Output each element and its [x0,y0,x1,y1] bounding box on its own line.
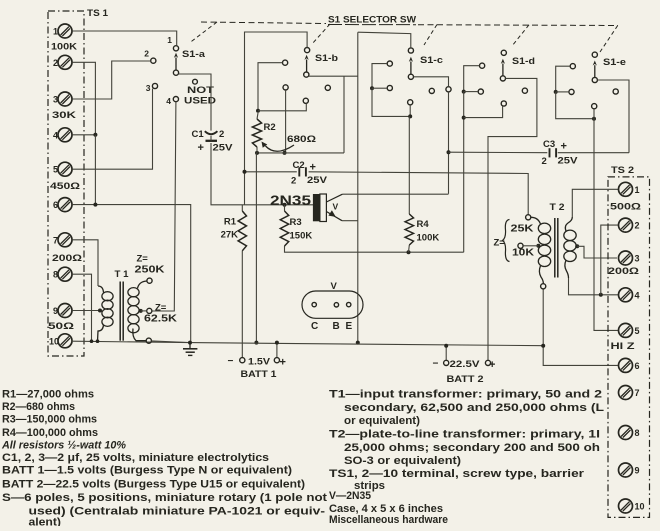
junction dot R2 bottom [255,151,259,155]
TS1 screw terminal 6 [58,198,72,212]
resistor R1 27K [238,205,246,251]
wire TS1-3 to S1-a contact 2 [72,61,150,99]
wire R4 bottom lead [408,245,411,252]
wire S1-b rotor to emitter vertical [309,75,358,77]
TS1 screw terminal 1 [58,24,72,38]
T2 10K tap terminal [518,243,523,248]
svg-text:500Ω: 500Ω [610,202,642,213]
svg-text:100K: 100K [51,42,77,53]
T2 25K tap terminal [526,215,531,220]
svg-text:250K: 250K [135,265,165,276]
wire R4 top lead [408,116,410,214]
T1 secondary winding [128,281,147,341]
svg-text:TS 1: TS 1 [87,8,109,19]
svg-text:22.5V: 22.5V [450,359,481,370]
switch S1-c contact 5 [429,88,434,93]
svg-text:C3: C3 [543,139,555,150]
wire C3 left from collector node [449,151,548,154]
switch S1-b contact 2 [283,60,288,65]
junction dot S1-d contacts a [462,90,466,94]
battery BATT2 plus terminal [487,174,489,360]
svg-text:+: + [198,142,204,154]
junction dot BATT2 minus [444,344,448,348]
transformer T1 core [119,282,121,341]
svg-text:TS1, 2—10 terminal, screw type: TS1, 2—10 terminal, screw type, barrier [329,468,585,480]
svg-text:450Ω: 450Ω [50,181,80,192]
wire TS1-6 bus to ground drop [72,205,190,342]
battery BATT1 plus terminal [276,343,278,358]
TS1 screw terminal 2 [58,55,72,69]
svg-text:100K: 100K [417,233,440,244]
wire S1-d contact 4 drop [464,106,503,118]
TS1 screw terminal 9 [58,304,72,318]
wire TS1-5 to S1-a contact 3 [72,89,152,170]
transistor socket outline [302,291,363,318]
junction dot S1-d contacts b [462,116,466,120]
svg-text:S1 SELECTOR SW: S1 SELECTOR SW [328,15,416,26]
switch S1-c contact 4 [408,100,413,105]
svg-text:V—2N35: V—2N35 [329,490,371,502]
svg-text:200Ω: 200Ω [52,253,82,264]
switch S1-d contact 4 [501,101,506,106]
svg-text:9: 9 [635,466,640,476]
svg-text:SO-3 or equivalent): SO-3 or equivalent) [344,455,461,467]
svg-text:S1-c: S1-c [420,55,443,66]
junction dot S1-b contact3 / R3 line [283,151,287,155]
svg-text:4: 4 [166,96,171,106]
T1 primary winding [98,286,114,341]
wire T2 secondary tap to TS2-3 [577,246,617,258]
wire S1-e rotor to C3 right [597,80,629,153]
resistor R4 100K [405,214,413,245]
switch S1-b contact 5 [325,85,330,90]
wire R2 bottom horizontal [257,152,344,154]
svg-text:1: 1 [167,35,172,45]
svg-text:R1—27,000 ohms: R1—27,000 ohms [2,389,94,401]
wire junction down to TS1-6 node [94,135,96,205]
T1 62.5K tap terminal [147,308,152,313]
TS2 screw terminal 10 [619,499,633,513]
svg-text:S1-d: S1-d [512,56,535,67]
svg-text:1.5V: 1.5V [248,357,271,368]
wire S1-d contacts 2-3 tie [464,66,480,92]
svg-text:C2: C2 [293,160,305,171]
wire R2 bottom junction up to S1-b rotor wire [343,76,345,153]
capacitor C1 [205,131,218,134]
wire S1-b contact1 rectangle to base node vertical [245,32,308,205]
TS1 screw terminal 7 [58,233,72,247]
switch S1-e contact 2 [570,64,575,69]
svg-text:+: + [310,162,316,174]
resistor R2 680 ohm [252,119,261,147]
svg-text:10: 10 [49,336,59,346]
junction dot R2 ground at bus [254,341,258,345]
svg-text:+: + [489,359,495,371]
svg-text:Z=: Z= [494,238,506,249]
svg-text:6: 6 [635,361,640,371]
socket pin B [334,303,338,307]
svg-text:BATT 1—1.5 volts (Burgess Type: BATT 1—1.5 volts (Burgess Type N or equi… [2,465,292,477]
junction dot TS1-8 at common [90,339,94,343]
impedance bracket Z= [503,220,510,262]
junction dot TS1-2/4 [93,133,97,137]
junction dot BATT1 plus [275,341,279,345]
switch S1-c wiper arrow [410,62,412,75]
svg-text:E: E [346,321,353,332]
TS2 screw terminal 9 [619,463,633,477]
svg-text:B: B [333,321,340,332]
TS2 screw terminal 2 [619,218,633,232]
svg-text:62.5K: 62.5K [144,314,177,325]
wire S1-c rotor to output circle [414,77,449,87]
junction dot R2 top [256,109,260,113]
svg-text:C1: C1 [192,129,205,140]
wire TS1-7 to T1 primary top [72,240,98,286]
wire C3 right [558,152,629,154]
wire S1-b contact 3 down to R2 bottom wire [285,90,287,153]
svg-text:BATT 1: BATT 1 [241,369,278,380]
junction dot S1-c contacts [370,86,374,90]
switch S1-c contact 2 [387,61,392,66]
svg-text:V: V [331,281,338,292]
svg-text:25V: 25V [307,175,328,186]
svg-text:R4—100,000 ohms: R4—100,000 ohms [2,427,98,439]
svg-text:R2: R2 [264,122,276,133]
wire T1 common to ground to battery bus [72,341,545,346]
svg-text:R3—150,000 ohms: R3—150,000 ohms [2,413,97,425]
battery BATT2 minus terminal [445,346,447,360]
svg-text:30K: 30K [52,110,76,121]
svg-text:25V: 25V [213,143,234,154]
svg-text:C: C [311,321,318,332]
svg-text:10: 10 [635,502,645,512]
switch S1-d contact 2 [480,63,485,68]
underline below selector label [328,24,416,26]
transistor collector lead [326,194,342,202]
switch S1-d contact 1 [501,50,506,55]
svg-text:R1: R1 [224,217,237,228]
wire TS1-9 to T1 primary tap [72,310,100,312]
svg-text:10K: 10K [512,248,534,259]
junction dot T1 primary tap [98,309,102,313]
svg-text:2: 2 [291,176,296,187]
svg-text:NOT: NOT [187,85,214,96]
TS1 screw terminal 10 [58,334,72,348]
battery BATT1 minus terminal [241,251,243,357]
junction dot C3 tap [447,150,451,154]
svg-text:2: 2 [635,221,640,231]
svg-text:TS 2: TS 2 [611,165,634,176]
switch S1-c rotor contact [408,74,413,79]
T1 250K tap terminal [147,278,152,283]
svg-text:150K: 150K [290,231,313,242]
svg-text:25,000 ohms; secondary 200 and: 25,000 ohms; secondary 200 and 500 oh [344,442,600,454]
junction dot TS1-6 [93,203,97,207]
wire S1-d contacts down [463,92,465,253]
wire C2 left from base-node vertical [245,171,297,173]
svg-text:+: + [280,357,286,369]
junction dot S1-e contacts a [554,90,558,94]
wire S1-c contacts down to R4 node [372,88,410,116]
wire collector to transistor [342,193,448,195]
junction dot T2 secondary tap [575,244,579,248]
wire C2 right to T2 25K tap and S1-d rotor [309,172,529,215]
switch S1-e contact 4 [592,104,597,109]
svg-text:Miscellaneous hardware: Miscellaneous hardware [329,514,448,526]
wire TS1-1 to S1-a contact 1 [72,31,176,46]
terminal strip TS2 dashed outline [608,177,650,518]
switch S1-d rotor contact [500,76,505,81]
switch S1-a contact 1 [173,46,178,51]
TS2 screw terminal 7 [619,386,633,400]
dashed diagonal to S1-d [512,25,529,46]
switch S1-c contact 1 [408,48,413,53]
svg-text:S1-a: S1-a [182,49,206,60]
svg-text:−: − [433,359,439,370]
wire S1-d rotor to plate feed [488,78,537,173]
svg-text:680Ω: 680Ω [287,134,316,145]
wire S1-a contact 4 down to T1 62.5K tap [152,102,176,311]
svg-text:V: V [333,202,339,212]
svg-text:50Ω: 50Ω [48,321,75,332]
svg-text:3: 3 [53,95,58,105]
svg-text:R3: R3 [290,217,302,228]
svg-text:27K: 27K [221,230,239,241]
svg-text:Z=: Z= [155,303,167,314]
switch S1-b wiper arrow [306,60,308,72]
wire S1-b contact 2 down to R2 top [258,63,283,111]
svg-text:alent): alent) [29,516,62,526]
socket pin C [312,302,316,306]
junction dot T2 bottom at bus [541,344,545,348]
capacitor C2 [298,167,300,176]
svg-text:2: 2 [144,49,149,59]
switch S1-b rotor contact [304,72,309,77]
svg-text:BATT 2: BATT 2 [447,374,484,385]
wire TS2-2 branch [601,225,618,295]
svg-text:7: 7 [53,235,58,245]
svg-text:3: 3 [635,254,640,264]
svg-text:8: 8 [635,428,640,438]
switch S1-c contact 3 [387,85,392,90]
wire TS1-8 down to common [72,274,91,341]
dashed diagonal to S1-b [312,24,330,44]
svg-text:25K: 25K [511,224,534,235]
svg-text:8: 8 [53,270,58,280]
svg-text:5: 5 [53,165,58,175]
switch S1-d contact 3 [478,89,483,94]
vertical S1-c contact1 branch / emitter / ground [358,32,411,48]
TS1 screw terminal 4 [58,128,72,142]
switch S1-a contact 3 [152,83,157,88]
switch S1-a contact 4 [173,97,178,102]
transformer T2 core [554,218,556,278]
socket pin E [347,302,351,306]
junction dot C2 left [243,170,247,174]
wire base node vertical down from R2 bottom to bus [255,153,257,343]
svg-text:used) (Centralab miniature PA-: used) (Centralab miniature PA-1021 or eq… [29,505,326,517]
switch S1-b contact 3 [283,85,288,90]
dashed leader bus left segment [201,22,326,24]
svg-text:4: 4 [53,130,58,140]
wire S1-e contacts down to TS2-5 [556,92,594,119]
wire S1-c output circle down to collector corner [448,92,450,194]
svg-text:T 2: T 2 [550,202,565,213]
ground symbol [183,343,197,356]
switch S1-e contact 5 [613,89,618,94]
wire R2 top to S1-b contact 4 [258,103,306,110]
wire TS1-2 down to TS1-4 junction [72,62,95,135]
T2 secondary winding [564,217,576,278]
TS2 screw terminal 8 [619,426,633,440]
TS2 screw terminal 5 [619,323,633,337]
switch S1-a wiper arrow [175,58,177,70]
T2 primary winding [531,217,551,283]
junction dot R3 top at base line [283,203,287,207]
junction dot R4 top node [408,114,412,118]
wire S1-a rotor to C1 top [179,74,211,131]
svg-text:T 1: T 1 [115,269,130,280]
switch S1-a unused contact [193,79,198,84]
svg-text:secondary, 62,500 and 250,000: secondary, 62,500 and 250,000 ohms (L [344,402,604,414]
dashed diagonal to S1-c [424,25,437,46]
junction dot T1 primary bottom [96,339,100,343]
dashed diagonal to S1-e [600,26,618,53]
wire C1 bottom to base line [211,143,313,205]
switch S1-e wiper arrow [594,65,596,77]
svg-text:25V: 25V [558,156,579,167]
svg-text:9: 9 [53,306,58,316]
TS2 screw terminal 3 [619,251,633,265]
svg-text:HI Z: HI Z [611,341,635,352]
svg-text:R2—680 ohms: R2—680 ohms [2,401,75,413]
transistor emitter lead with arrow [326,212,342,221]
svg-text:or equivalent): or equivalent) [344,415,420,427]
junction dot TS2-2 branch [599,293,603,297]
svg-text:1: 1 [53,27,58,37]
wire T2 secondary bottom to TS2-4 [569,278,619,295]
switch S1-a rotor contact [173,70,178,75]
dashed diagonal to S1-a [190,22,217,43]
svg-text:T2—plate-to-line transformer:: T2—plate-to-line transformer: primary, 1… [329,429,600,441]
switch S1-d wiper arrow [502,64,504,76]
TS1 screw terminal 3 [58,92,72,106]
TS1 screw terminal 5 [58,162,72,176]
svg-text:2: 2 [542,156,547,167]
wire R3 bottom / R4 bottom to S1-d contact vertical [285,246,464,252]
junction dot S1-e contacts b [592,117,596,121]
TS2 screw terminal 6 [619,358,633,372]
T2 primary bottom terminal [541,284,546,289]
svg-text:−: − [228,356,234,367]
junction dot R4 bottom [407,250,411,254]
wire S1-c contacts 2-3 tie [372,64,387,89]
TS2 screw terminal 4 [619,288,633,302]
wire TS1-4 to junction [72,134,95,136]
wire T2 secondary top to TS2-1 [572,189,618,217]
svg-text:+: + [561,141,567,153]
capacitor C3 [549,148,551,157]
svg-text:1: 1 [635,185,640,195]
svg-text:5: 5 [635,326,640,336]
switch S1-d contact 5 [522,88,527,93]
TS1 screw terminal 8 [58,267,72,281]
TS2 screw terminal 1 [619,182,633,196]
T1 secondary bottom terminal [146,338,151,343]
junction dot T1 secondary tap [139,309,143,313]
wire T2 primary bottom to bus and TS2-6 [542,289,544,346]
svg-text:BATT 2—22.5 volts (Burgess Typ: BATT 2—22.5 volts (Burgess Type U15 or e… [2,478,305,490]
svg-text:All resistors ½-watt 10%: All resistors ½-watt 10% [1,440,126,452]
wire S1-c contact 4 to R4 node [409,105,411,117]
junction dot ground [188,341,192,345]
svg-text:S1-b: S1-b [315,53,338,64]
wire S1-e contacts 2-3 tie [556,66,571,92]
switch S1-a contact 2 [151,58,156,63]
svg-text:6: 6 [53,200,58,210]
svg-text:T1—input transformer: primary,: T1—input transformer: primary, 50 and 2 [329,389,602,401]
resistor R3 150K [280,205,288,246]
terminal strip TS1 dashed outline [48,11,84,356]
svg-text:Z=: Z= [137,254,149,265]
svg-text:C1, 2, 3—2 μf, 25 volts, minia: C1, 2, 3—2 μf, 25 volts, miniature elect… [2,452,269,464]
switch S1-b contact 1 [305,48,310,53]
R2 adjustment arrow [266,145,295,151]
switch S1-e contact 3 [569,89,574,94]
svg-text:7: 7 [635,388,640,398]
dashed leader bus right segment [418,24,618,27]
svg-text:S1-e: S1-e [603,57,626,68]
switch S1-e contact 1 [592,52,597,57]
svg-text:4: 4 [635,290,640,300]
switch S1-b contact 4 [303,98,308,103]
svg-text:S—6 poles, 5 positions, miniat: S—6 poles, 5 positions, miniature rotary… [2,492,327,504]
junction dot T2 primary tap [536,244,540,248]
svg-text:2: 2 [53,58,58,68]
junction dot emitter vertical at bus [356,341,360,345]
switch S1-c rotor output circle [446,87,451,92]
svg-text:3: 3 [146,83,151,93]
switch S1-e rotor contact [592,77,597,82]
wire emitter tee [342,220,358,222]
svg-text:R4: R4 [417,219,430,230]
svg-text:200Ω: 200Ω [608,266,640,277]
svg-text:2: 2 [219,129,224,140]
transistor V 2N35 symbol [313,194,320,221]
svg-text:2N35: 2N35 [270,193,312,208]
